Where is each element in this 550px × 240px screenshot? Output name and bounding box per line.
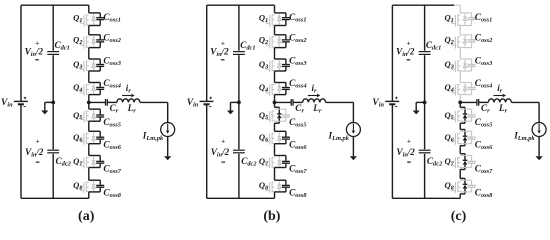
svg-text:(c): (c) — [451, 209, 467, 224]
svg-text:+: + — [407, 138, 411, 146]
svg-text:(a): (a) — [78, 209, 95, 224]
svg-text:(b): (b) — [263, 209, 280, 224]
svg-text:+: + — [35, 138, 39, 146]
svg-text:+: + — [221, 138, 225, 146]
